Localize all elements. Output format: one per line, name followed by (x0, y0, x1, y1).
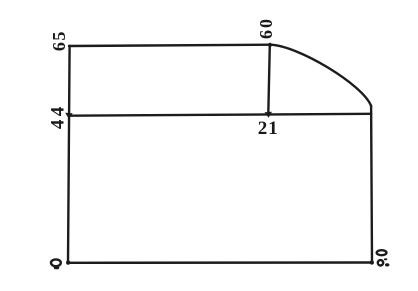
svg-text:60: 60 (256, 17, 276, 39)
svg-text:21: 21 (258, 118, 279, 139)
svg-text:65: 65 (49, 30, 69, 51)
svg-text:44: 44 (48, 103, 69, 129)
